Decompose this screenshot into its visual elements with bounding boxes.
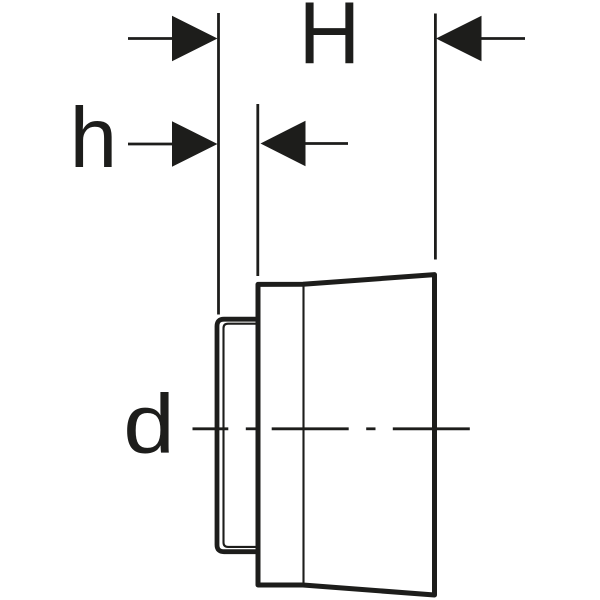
dimension h right arrow	[261, 121, 349, 167]
centerline dot 2	[366, 427, 375, 430]
centerline dash 2	[272, 427, 349, 430]
centerline dash 1	[193, 427, 229, 430]
svg-text:H: H	[299, 0, 361, 82]
extension line middle (plane of cone small end)	[256, 104, 259, 276]
svg-text:d: d	[123, 377, 175, 471]
centerline dash 3	[393, 427, 470, 430]
centerline dot 1	[246, 427, 256, 430]
extension line right (plane of cone large end)	[434, 14, 437, 260]
dimension h left arrow	[128, 121, 218, 167]
dimension H left arrow	[128, 16, 218, 62]
extension line left (plane of spigot top)	[217, 13, 220, 315]
spigot outer outline	[217, 319, 258, 552]
cone body outline	[258, 275, 435, 595]
svg-text:h: h	[70, 91, 118, 186]
spigot inner line	[224, 324, 259, 547]
cone inner vertical line (socket depth)	[302, 283, 304, 588]
dimension H right arrow	[436, 16, 525, 62]
